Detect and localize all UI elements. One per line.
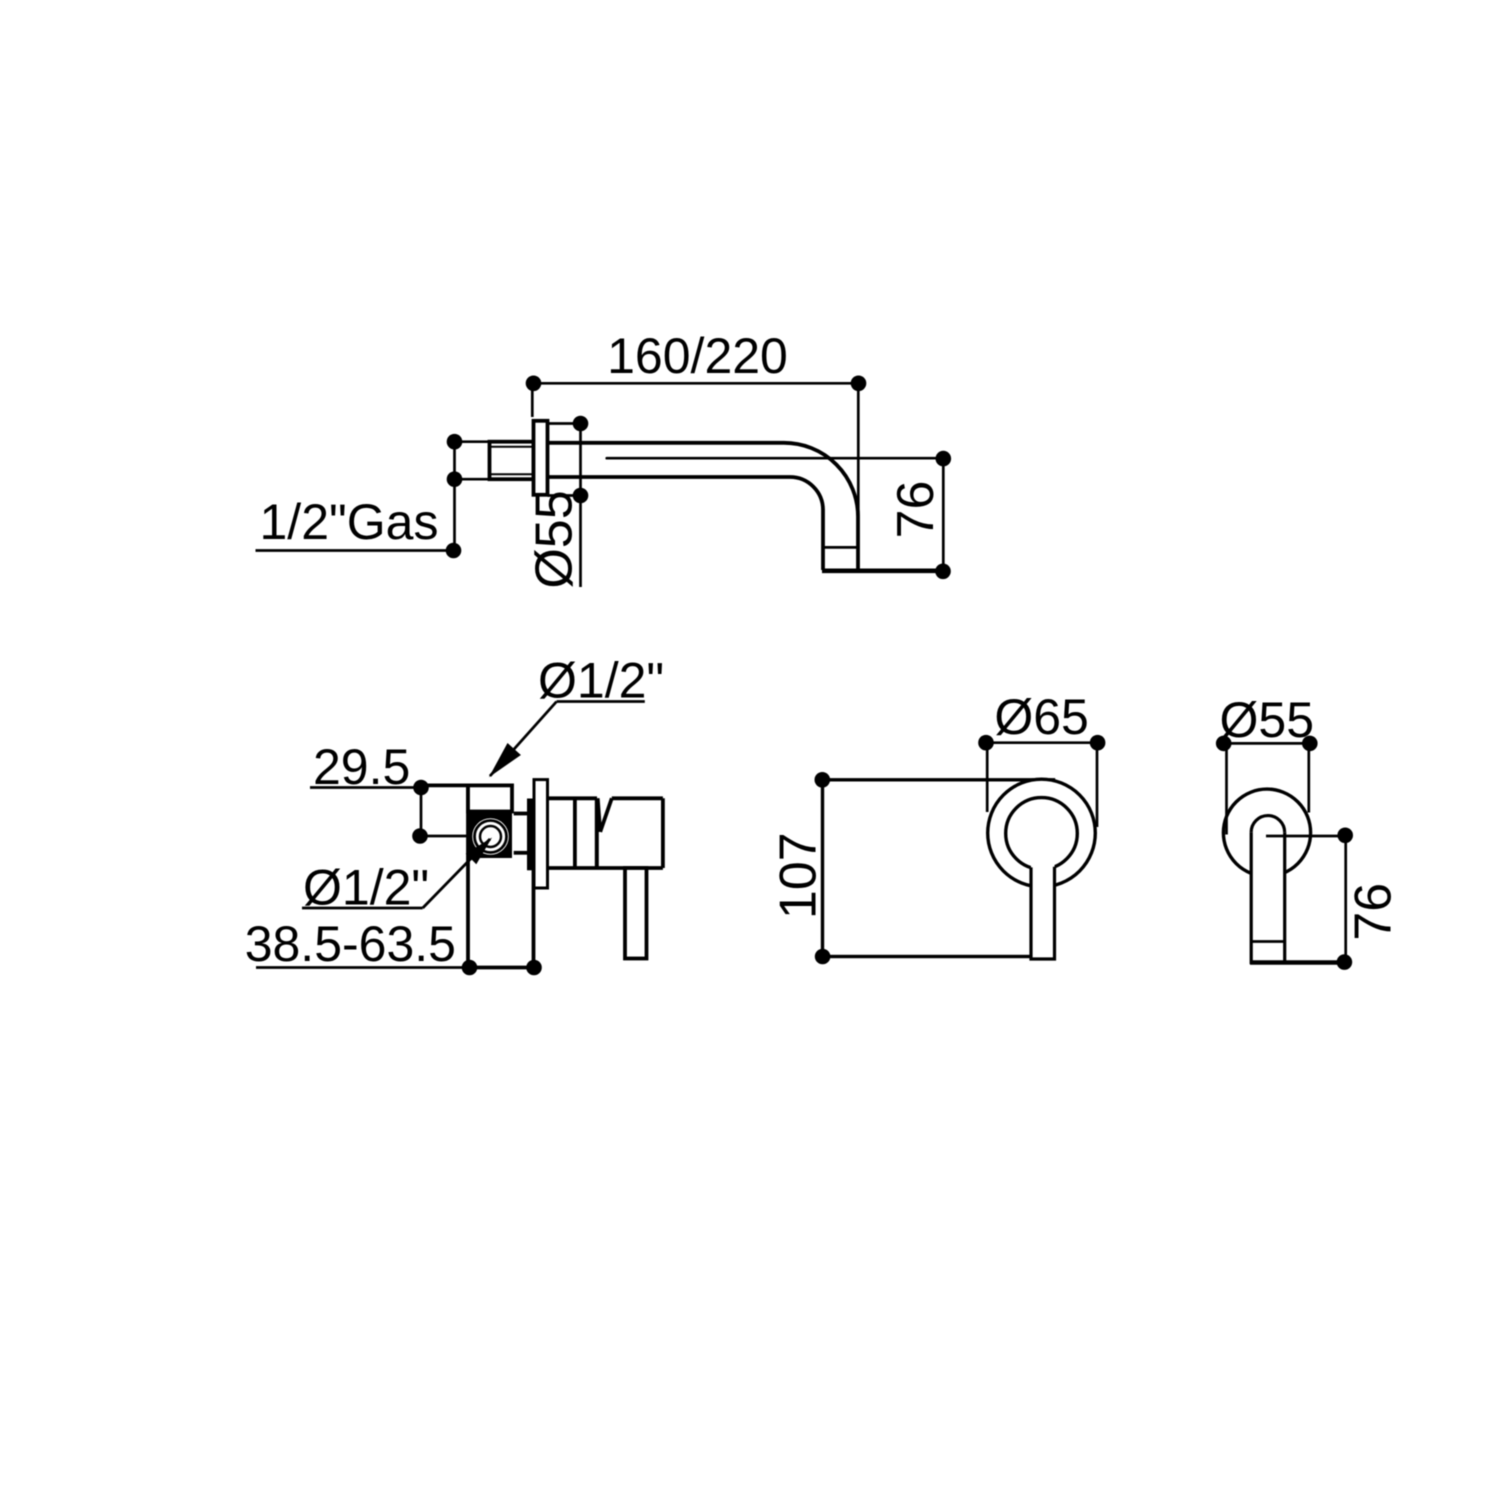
svg-text:76: 76 [1345, 883, 1403, 941]
aerator line front view [1251, 940, 1285, 943]
trim ring O65 outer [988, 779, 1096, 887]
svg-text:Ø55: Ø55 [526, 490, 584, 588]
svg-text:160/220: 160/220 [607, 328, 788, 384]
spout tube front view [1251, 832, 1285, 962]
handle rod front view [1031, 842, 1055, 959]
wall plate 107 front view [823, 780, 1054, 957]
dimension O55 flange [548, 424, 581, 588]
threaded inlet pipe 1/2 Gas [490, 442, 534, 480]
dimension 29.5 [310, 788, 468, 837]
wall gasket (solid) [527, 799, 534, 871]
dimension O55 right [1224, 743, 1310, 834]
escutcheon O55 front view [1223, 789, 1310, 876]
dimension 1/2"Gas thread leader [256, 442, 490, 551]
dimension 107 [815, 772, 831, 788]
svg-text:Ø1/2": Ø1/2" [538, 653, 664, 709]
dimension O65 [986, 743, 1098, 827]
spindle neck lines [514, 814, 528, 853]
spout tube top edge with bend [548, 443, 859, 570]
svg-text:Ø55: Ø55 [1220, 692, 1315, 748]
handle with lever notch [598, 798, 663, 868]
dimension 160/220 [532, 383, 858, 516]
svg-text:1/2"Gas: 1/2"Gas [260, 494, 439, 550]
escutcheon plate side view [534, 780, 548, 888]
svg-text:76: 76 [887, 481, 945, 539]
spout bend silhouette semicircle [1251, 816, 1285, 833]
svg-text:107: 107 [770, 832, 828, 919]
spout centerline [607, 457, 944, 460]
svg-text:29.5: 29.5 [313, 739, 410, 795]
wall flange of spout [534, 421, 548, 495]
dimension 76 spout drop [942, 459, 945, 572]
top inlet port [468, 785, 512, 811]
svg-text:Ø65: Ø65 [994, 689, 1089, 745]
spout tip bottom [822, 568, 943, 573]
dimension 76 right [1266, 835, 1346, 962]
side inlet circle O1/2 [471, 817, 510, 856]
aerator line at spout tip [823, 546, 858, 549]
dimension 38.5-63.5 [256, 966, 534, 969]
trim ring O65 inner [1006, 798, 1078, 870]
cartridge housing [548, 798, 663, 868]
lever rod [625, 868, 647, 959]
spout tube bottom edge with bend [548, 477, 824, 570]
svg-text:38.5-63.5: 38.5-63.5 [245, 916, 456, 972]
side inlet boss (black square) [468, 812, 512, 859]
valve body outline [421, 785, 534, 967]
spout tube bottom with dim line [1250, 960, 1344, 965]
